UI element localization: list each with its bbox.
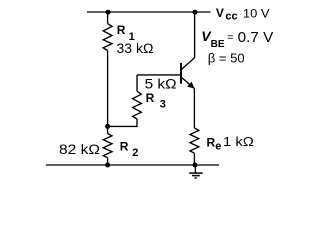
svg-text:10 V: 10 V bbox=[243, 8, 270, 20]
svg-text:33 kΩ: 33 kΩ bbox=[117, 41, 154, 56]
node: divider junction (R1/R2/R3) bbox=[105, 124, 110, 129]
transistor Q1 emitter diagonal bbox=[181, 77, 194, 88]
svg-text:0.7 V: 0.7 V bbox=[238, 29, 274, 46]
svg-text:R: R bbox=[146, 91, 155, 105]
wire: collector vertical to top rail bbox=[194, 12, 196, 58]
wire: base wire from R3 to transistor base bbox=[137, 74, 181, 76]
svg-text:5 kΩ: 5 kΩ bbox=[145, 77, 177, 92]
svg-text:e: e bbox=[215, 140, 221, 152]
wire: R2 bottom lead to bottom rail bbox=[107, 158, 109, 165]
node: junction bottom rail / R2 bbox=[105, 163, 110, 168]
wire: emitter vertical down to Re bbox=[193, 88, 195, 128]
wire: bottom rail bbox=[46, 164, 219, 166]
resistor Re zigzag bbox=[190, 128, 199, 153]
wire: Re bottom lead to bottom rail bbox=[193, 153, 195, 165]
svg-text:V: V bbox=[216, 6, 224, 20]
transistor Q1 base bar bbox=[180, 63, 182, 84]
svg-text:=: = bbox=[227, 31, 233, 43]
node: junction top rail / collector bbox=[192, 10, 197, 15]
svg-text:1 kΩ: 1 kΩ bbox=[223, 134, 254, 149]
svg-text:2: 2 bbox=[132, 147, 138, 159]
wire: junction down to R2 bbox=[107, 126, 109, 133]
svg-text:R: R bbox=[117, 23, 126, 37]
svg-text:82 kΩ: 82 kΩ bbox=[59, 142, 100, 157]
wire: left vertical R1 bottom to divider junction bbox=[107, 51, 109, 127]
node: junction bottom rail / emitter-ground bbox=[193, 163, 198, 168]
svg-text:3: 3 bbox=[160, 99, 166, 111]
svg-text:R: R bbox=[207, 136, 216, 150]
wire: top Vcc rail bbox=[87, 11, 211, 13]
wire: R3 top lead up to base wire bbox=[136, 75, 138, 91]
wire: R1 top lead from rail bbox=[107, 12, 109, 24]
svg-text:BE: BE bbox=[211, 39, 225, 50]
transistor Q1 collector diagonal bbox=[181, 58, 195, 70]
wire: divider junction to R3 bottom bbox=[108, 119, 137, 126]
resistor R1 zigzag bbox=[103, 24, 112, 51]
node: junction top rail / R1 bbox=[106, 10, 111, 15]
transistor Q1 emitter arrowhead bbox=[187, 82, 194, 89]
resistor R2 zigzag bbox=[103, 134, 112, 158]
ground symbol bbox=[189, 165, 202, 178]
resistor R3 zigzag bbox=[133, 91, 142, 119]
svg-text:cc: cc bbox=[225, 11, 237, 23]
svg-text:R: R bbox=[120, 140, 129, 154]
svg-text:β = 50: β = 50 bbox=[208, 51, 245, 66]
